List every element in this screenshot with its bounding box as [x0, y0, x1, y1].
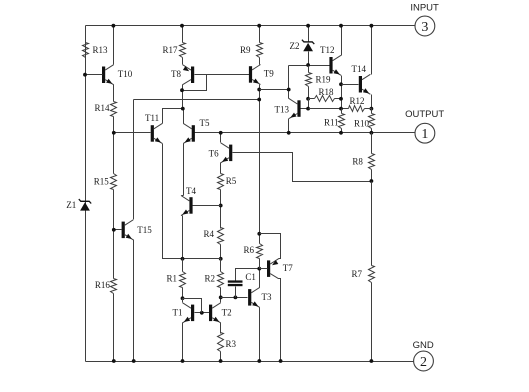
wire T2 collector: [220, 298, 222, 303]
resistor R11: [339, 114, 345, 129]
wire R17 top feed: [182, 26, 184, 43]
transistor T12: [329, 55, 341, 75]
svg-text:T14: T14: [352, 64, 367, 74]
wire T13 collector elbow: [289, 98, 290, 100]
svg-text:R7: R7: [352, 269, 363, 279]
wire T1-T2 base link: [195, 312, 210, 314]
node R6 top / T7 emitter junction: [257, 232, 261, 236]
wire T7 collector to ground: [279, 279, 281, 362]
svg-text:R4: R4: [204, 229, 215, 239]
resistor R17: [180, 43, 186, 58]
svg-text:OUTPUT: OUTPUT: [405, 109, 444, 120]
svg-text:R15: R15: [94, 177, 110, 187]
wire C1 bottom lead: [235, 287, 237, 298]
svg-text:R12: R12: [350, 96, 365, 106]
wire R1 to T1 node: [182, 288, 184, 299]
svg-text:R9: R9: [240, 45, 251, 55]
wire T13 emitter to output rail: [288, 119, 290, 133]
svg-text:R2: R2: [205, 274, 216, 284]
wire C1 top lead: [236, 269, 260, 281]
svg-text:R1: R1: [167, 274, 178, 284]
wire T11 collector: [163, 109, 183, 124]
terminal INPUT (3): [410, 3, 439, 36]
resistor R18 (horizontal): [309, 98, 315, 100]
wire Z2 to junction: [308, 52, 310, 66]
wire R9 top feed: [259, 26, 261, 43]
resistor R15: [111, 174, 117, 190]
svg-text:T11: T11: [145, 113, 159, 123]
node R8 bottom / sense junction: [370, 179, 374, 183]
node internal rail right end: [257, 98, 261, 102]
node R12/R10 junction: [370, 107, 374, 111]
resistor R4: [218, 228, 224, 245]
resistor R2: [220, 259, 222, 272]
zener diode Z2: [302, 40, 314, 52]
resistor R8: [371, 133, 373, 154]
svg-text:R17: R17: [163, 45, 179, 55]
svg-text:Z1: Z1: [66, 200, 76, 210]
wire T1 emitter to ground: [182, 323, 184, 362]
transistor T8 (pnp, diode-connected): [183, 65, 195, 85]
svg-text:R10: R10: [354, 119, 370, 129]
wire y=108.6 to R12: [309, 108, 349, 110]
node T9 emitter to T13 link: [257, 88, 261, 92]
node R18 right junction: [339, 97, 343, 101]
transistor T3: [248, 287, 260, 307]
resistor R16: [111, 279, 117, 294]
wire T6 base sense line: [233, 153, 372, 182]
svg-text:R6: R6: [244, 245, 255, 255]
svg-text:R8: R8: [352, 157, 363, 167]
wire R7 to ground rail: [371, 283, 373, 362]
zener diode Z1: [79, 199, 91, 211]
transistor T7 (pnp): [267, 259, 279, 279]
wire T10 collector to top rail: [113, 26, 115, 65]
node C1 bottom junction: [234, 296, 238, 300]
svg-text:T8: T8: [171, 69, 181, 79]
wire left rail: [85, 26, 87, 362]
wire R15 feed: [113, 133, 115, 174]
svg-text:R3: R3: [226, 339, 237, 349]
transistor T4: [181, 196, 193, 216]
wire T8 collector drop to mirror node: [182, 85, 184, 109]
transistor T1: [183, 303, 195, 323]
wire R5 to R4: [220, 190, 222, 229]
transistor T14: [359, 74, 371, 94]
node T13 base junction: [306, 107, 310, 111]
resistor R3: [218, 333, 224, 352]
svg-text:T1: T1: [173, 308, 183, 318]
svg-text:T6: T6: [209, 149, 219, 159]
svg-text:INPUT: INPUT: [410, 3, 439, 14]
resistor R5: [218, 174, 224, 190]
wire T5 emitter to T4 collector: [183, 144, 185, 196]
wire R2 to T2 collector node: [220, 288, 222, 298]
wire base tie to R1 node: [183, 299, 202, 313]
wire R14/R15 junction to T11 base: [114, 132, 151, 134]
wire T14 base: [342, 84, 359, 86]
node T6 collector on output rail: [219, 131, 223, 135]
wire T4 emitter drop: [182, 215, 183, 217]
wire T7 base: [260, 268, 268, 270]
wire R19 feed: [308, 66, 310, 73]
node R6/T7 base/C1/T3 junction: [257, 267, 261, 271]
node R11 top junction: [339, 107, 343, 111]
node T14 base junction: [339, 82, 343, 86]
transistor T13: [289, 99, 301, 119]
wire T4 base: [193, 205, 221, 207]
svg-text:T10: T10: [118, 69, 133, 79]
wire R17 to T8 emitter: [182, 58, 184, 65]
wire link to T13 collector column: [260, 89, 289, 91]
node R2 / T2 collector junction: [219, 296, 223, 300]
svg-text:T3: T3: [262, 292, 272, 302]
resistor R13: [83, 43, 89, 58]
wire R15 to T15 base node: [113, 190, 115, 230]
wire T14 collector to top rail: [371, 26, 373, 75]
node base link junction: [200, 311, 204, 315]
node ground rail junctions: [112, 359, 116, 363]
transistor T2: [209, 303, 221, 323]
svg-text:R16: R16: [95, 280, 111, 290]
node T4 base junction: [219, 204, 223, 208]
wire T10 base: [86, 74, 103, 76]
svg-text:Z2: Z2: [290, 41, 300, 51]
wire T4 collector: [182, 195, 184, 197]
svg-text:R19: R19: [316, 75, 332, 85]
wire T15 base node to R16: [113, 230, 115, 279]
svg-text:R14: R14: [95, 103, 111, 113]
wire top supply rail: [86, 25, 416, 27]
svg-text:R13: R13: [93, 45, 109, 55]
node T13 link junction: [287, 88, 291, 92]
node R4/R2 junction: [219, 257, 223, 261]
wire T14 emitter: [371, 95, 373, 109]
resistor R14: [113, 85, 115, 102]
wire T13 collector riser: [288, 66, 290, 99]
terminal GND (2): [413, 340, 434, 371]
wire T15 emitter drop x=133.7: [133, 240, 135, 362]
wire bottom ground rail: [86, 361, 414, 363]
node T4 emitter / R1 junction: [181, 257, 185, 261]
svg-text:T5: T5: [200, 118, 210, 128]
resistor R1: [182, 259, 184, 272]
transistor T9: [249, 65, 261, 85]
node Z2/R19 junction: [306, 63, 310, 67]
wire T12 collector to top rail: [341, 26, 343, 56]
svg-text:R5: R5: [226, 176, 237, 186]
resistor R6: [259, 234, 261, 244]
svg-text:T2: T2: [222, 308, 232, 318]
wire T12 emitter drop x=341: [341, 76, 343, 109]
transistor T11: [151, 123, 163, 143]
wire R8 to T6-base node: [371, 170, 373, 182]
node R11 bottom on output rail: [339, 131, 343, 135]
wire T11 emitter drop: [163, 144, 183, 259]
wire R19 to R18 node: [308, 87, 310, 99]
node T8 collector/base junction: [180, 88, 184, 92]
node R14 bottom / T11 base junction: [112, 131, 116, 135]
wire R3 to ground: [220, 352, 222, 362]
terminal OUTPUT (1): [405, 109, 444, 143]
wire mirror node riser: [182, 108, 184, 110]
resistor R10: [371, 109, 373, 114]
wire T3 base line: [221, 297, 248, 299]
node R1 / T1 collector-base junction: [181, 296, 185, 300]
svg-text:R11: R11: [324, 118, 339, 128]
node T13 emitter on output rail: [287, 131, 291, 135]
wire R4 to node: [220, 245, 222, 259]
wire T15 collector riser x=133.7: [133, 100, 135, 220]
svg-text:T13: T13: [275, 105, 290, 115]
wire T8 base to T9 base: [195, 74, 250, 76]
svg-text:GND: GND: [413, 340, 434, 351]
wire long drop to R7: [371, 182, 373, 266]
wire R18 node to T13 base node: [308, 99, 310, 109]
transistor T5: [183, 123, 195, 143]
svg-text:C1: C1: [245, 272, 256, 282]
wire T3 collector riser: [259, 269, 261, 288]
wire T10 emitter to R14: [113, 85, 115, 102]
node T10 base on left rail: [83, 73, 87, 77]
resistor R9: [257, 43, 263, 58]
wire output rail (T5 base to OUTPUT pin): [195, 132, 416, 134]
svg-text:T12: T12: [320, 45, 335, 55]
resistor R7: [369, 266, 375, 283]
wire T1 collector: [182, 299, 184, 303]
wire T8 base tie-down: [183, 75, 207, 91]
node R10 bottom on output rail: [370, 131, 374, 135]
svg-text:T9: T9: [264, 69, 274, 79]
wire Z2 feed from top rail: [308, 26, 310, 42]
wire T7 emitter loop to R6 top: [260, 234, 281, 259]
node top rail junctions: [112, 24, 116, 28]
node T15 base junction: [112, 228, 116, 232]
wire R16 to ground rail: [113, 294, 115, 362]
node R19/R18 junction: [306, 97, 310, 101]
transistor T6: [221, 143, 233, 163]
node T11/T5 collector junction: [181, 107, 185, 111]
wire T13 base: [301, 108, 309, 110]
wire T9 emitter drop x=259.2: [259, 85, 261, 234]
svg-text:T7: T7: [283, 263, 293, 273]
capacitor C1: [228, 280, 243, 286]
svg-text:3: 3: [421, 20, 428, 35]
wire T3 emitter to ground: [259, 308, 261, 362]
svg-text:T4: T4: [186, 186, 196, 196]
wire R9 to T9 collector: [259, 58, 261, 65]
svg-text:R18: R18: [319, 87, 335, 97]
svg-text:2: 2: [420, 355, 427, 370]
wire T2 emitter to R3: [220, 323, 222, 334]
transistor T10: [102, 65, 114, 85]
wire T15 base: [114, 229, 122, 231]
wire T6 collector to output rail: [220, 133, 222, 143]
wire emitter bus y=258.8: [163, 258, 221, 260]
resistor R19: [306, 73, 312, 87]
wire junction to T12 base (y=65): [289, 65, 330, 67]
resistor R12 (horizontal): [349, 106, 365, 112]
wire T6 emitter to R5: [220, 163, 222, 174]
wire internal rail y=99.5 (T15 collector bus): [134, 99, 260, 101]
svg-text:T15: T15: [137, 225, 152, 235]
svg-text:1: 1: [421, 127, 428, 142]
transistor T15: [122, 220, 134, 240]
wire T5 collector: [183, 109, 185, 124]
